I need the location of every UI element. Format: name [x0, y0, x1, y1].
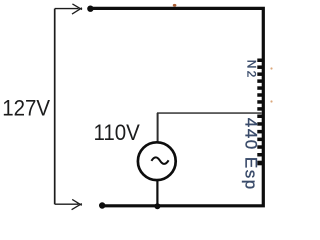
wire: top + right + bottom thick loop [92, 8, 263, 205]
AC source sine symbol [151, 157, 168, 164]
dimension bracket 127V (left measuring bracket with arrows) [55, 4, 82, 210]
artifact: small red mark above top wire [173, 4, 177, 7]
node: bottom middle junction dot [154, 203, 160, 209]
node: bottom left junction dot [99, 202, 105, 208]
node: top junction dot [87, 6, 93, 12]
svg-text:N2: N2 [245, 60, 259, 80]
wire: stem from source bottom to bottom wire [156, 181, 158, 205]
svg-text:440 Esp: 440 Esp [241, 118, 260, 191]
svg-text:110V: 110V [94, 120, 141, 145]
resistor 440 Esp (square teeth) [257, 115, 262, 166]
resistor N2 (square teeth) [257, 59, 262, 111]
wire: stem from tap line down to source top [157, 113, 159, 142]
artifact: orange specks right of resistor teeth [270, 67, 272, 69]
AC source U1 (110V) circle [138, 142, 176, 180]
wire: middle horizontal tap line [157, 112, 262, 114]
svg-text:127V: 127V [2, 96, 51, 121]
